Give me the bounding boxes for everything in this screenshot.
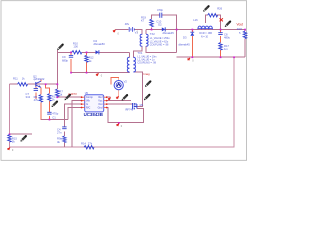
svg-text:27k: 27k [88, 142, 93, 146]
svg-text:1k: 1k [22, 77, 25, 81]
svg-text:q2N2222: q2N2222 [34, 77, 45, 81]
svg-text:Gnd: Gnd [98, 107, 103, 110]
svg-text:48v: 48v [125, 22, 130, 26]
svg-text:COUPLING = .98: COUPLING = .98 [137, 62, 156, 65]
svg-text:R26: R26 [217, 7, 222, 11]
svg-text:2.497V: 2.497V [68, 92, 77, 96]
svg-text:Imag: Imag [143, 72, 150, 76]
svg-text:M1: M1 [140, 103, 144, 107]
svg-text:R11: R11 [13, 77, 18, 81]
svg-text:0: 0 [121, 125, 123, 128]
svg-text:R14: R14 [81, 142, 86, 146]
svg-text:C9: C9 [62, 55, 66, 59]
svg-text:COUPLING = .98: COUPLING = .98 [150, 43, 169, 46]
svg-text:Vout: Vout [237, 22, 243, 26]
svg-text:K7: K7 [141, 19, 145, 23]
svg-text:5: 5 [239, 31, 241, 35]
svg-text:0: 0 [118, 32, 120, 35]
svg-text:UC3843B: UC3843B [84, 112, 103, 117]
svg-text:47k: 47k [34, 98, 39, 102]
svg-text:27n: 27n [57, 131, 62, 135]
svg-text:D2: D2 [158, 22, 162, 26]
svg-text:3n3: 3n3 [26, 95, 31, 99]
svg-text:R18: R18 [237, 27, 242, 31]
svg-text:V2: V2 [124, 80, 128, 84]
svg-text:470p: 470p [157, 8, 163, 12]
svg-text:D3: D3 [183, 36, 187, 40]
svg-text:680p: 680p [62, 59, 68, 63]
svg-text:C1: C1 [52, 115, 56, 119]
svg-text:470p: 470p [52, 111, 58, 115]
svg-text:dbreak50: dbreak50 [94, 42, 106, 46]
svg-text:0: 0 [12, 149, 14, 152]
svg-text:1: 1 [137, 30, 139, 33]
svg-text:0: 0 [101, 74, 103, 77]
svg-text:R/C: R/C [86, 107, 91, 110]
svg-text:L16: L16 [193, 18, 198, 22]
svg-text:100: 100 [73, 44, 78, 48]
svg-text:TX2: TX2 [150, 32, 155, 36]
svg-text:480u: 480u [224, 36, 230, 40]
svg-text:0: 0 [192, 59, 194, 62]
svg-text:dbreak45: dbreak45 [179, 42, 191, 46]
svg-text:IRF740: IRF740 [125, 109, 134, 112]
svg-text:N = 10: N = 10 [201, 35, 209, 38]
svg-text:dbreak45: dbreak45 [163, 31, 175, 35]
